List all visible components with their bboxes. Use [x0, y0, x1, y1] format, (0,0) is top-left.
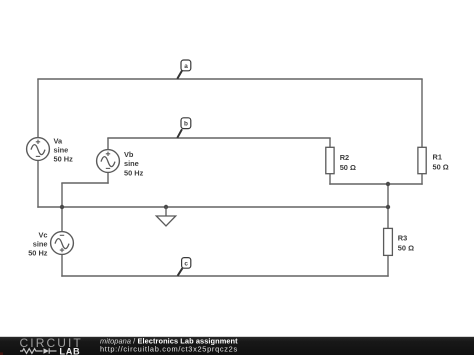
- ground: [156, 207, 175, 226]
- svg-text:LAB: LAB: [59, 346, 80, 355]
- node junction at ground symbol: [164, 205, 168, 209]
- svg-text:50 Ω: 50 Ω: [340, 163, 356, 172]
- wire top horizontal (node a): [37, 78, 422, 80]
- wire ground rail (node gnd): [37, 206, 388, 208]
- wire R3 top stub: [387, 207, 389, 229]
- svg-text:R2: R2: [340, 153, 349, 162]
- wire Vb top stub: [107, 138, 109, 150]
- svg-text:b: b: [184, 121, 188, 128]
- wire left rail top (node a): [37, 79, 39, 138]
- wire R1 bottom stub: [421, 174, 423, 185]
- svg-text:50 Hz: 50 Hz: [54, 155, 74, 164]
- wire bottom rail (node c): [61, 275, 388, 277]
- wire R2 top stub: [329, 138, 331, 148]
- svg-text:50 Hz: 50 Hz: [28, 248, 48, 257]
- svg-text:R3: R3: [398, 234, 407, 243]
- svg-text:Va: Va: [54, 136, 64, 145]
- wire Vb bottom horizontal: [61, 182, 108, 184]
- wire right rail to R1 top: [421, 79, 423, 148]
- resistor R1: [418, 147, 449, 173]
- svg-text:sine: sine: [33, 239, 48, 248]
- footer bar: [0, 337, 474, 355]
- svg-text:a: a: [184, 63, 188, 70]
- wire Vb bottom stub: [107, 172, 109, 184]
- wire R2 bottom stub: [329, 174, 331, 185]
- svg-text:50 Ω: 50 Ω: [433, 162, 449, 171]
- node junction at R3 / ground rail: [386, 205, 390, 209]
- node flag a: [177, 60, 191, 79]
- wire link bottom wire to ground rail: [387, 184, 389, 207]
- footer red corner mark: [0, 352, 3, 355]
- svg-text:Vc: Vc: [38, 231, 47, 240]
- svg-text:50 Ω: 50 Ω: [398, 244, 414, 253]
- voltage source Va: [27, 136, 74, 163]
- svg-text:R1: R1: [433, 152, 442, 161]
- svg-text:sine: sine: [54, 146, 69, 155]
- voltage source Vc: [28, 231, 73, 258]
- resistor R3: [384, 228, 414, 255]
- wire junction to Vc top: [61, 207, 63, 232]
- node flag c: [178, 258, 191, 276]
- svg-text:Vb: Vb: [124, 150, 134, 159]
- node flag b: [177, 118, 191, 138]
- wire drop to ground-rail junction: [61, 183, 63, 207]
- wire node b horizontal: [107, 137, 330, 139]
- CircuitLab logo wordmark: [20, 336, 83, 355]
- svg-text:50 Hz: 50 Hz: [124, 168, 144, 177]
- node junction at Vc / ground rail: [60, 205, 64, 209]
- wire R3 bottom stub: [387, 255, 389, 276]
- wire Vc bottom stub: [61, 254, 63, 277]
- svg-text:c: c: [184, 260, 188, 267]
- node junction at R1R2 bottom link: [386, 182, 390, 186]
- wire Va bottom to ground rail: [37, 160, 39, 207]
- voltage source Vb: [97, 150, 144, 178]
- svg-text:http://circuitlab.com/ct3x25pr: http://circuitlab.com/ct3x25prqcz2s: [100, 345, 238, 354]
- svg-text:sine: sine: [124, 159, 139, 168]
- wire R2-R1 bottom link: [329, 183, 422, 185]
- logo resistor-diode squiggle: [20, 348, 57, 353]
- footer attribution text: [100, 337, 238, 354]
- resistor R2: [326, 147, 356, 173]
